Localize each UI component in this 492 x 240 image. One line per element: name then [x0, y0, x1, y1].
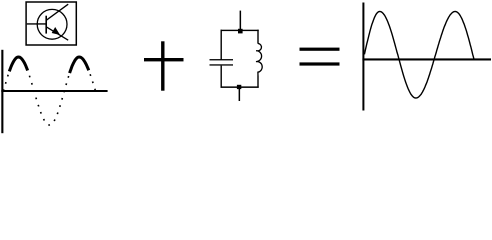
tank right wire below inductor — [257, 76, 258, 88]
tank top junction dot — [238, 29, 243, 34]
transistor emitter lead — [46, 27, 68, 40]
tank bottom junction dot — [237, 85, 241, 89]
tank right wire to inductor — [257, 30, 258, 44]
input waveform graph horizontal axis — [1, 90, 107, 92]
transistor base bar — [45, 16, 47, 34]
output graph vertical axis — [362, 3, 364, 111]
tank left wire to capacitor — [221, 30, 222, 60]
equals sign top bar — [300, 48, 340, 51]
equals sign bottom bar — [300, 62, 340, 65]
transistor emitter arrow — [52, 28, 59, 35]
transistor Q1 circle — [37, 9, 67, 39]
plus sign vertical bar — [161, 41, 164, 90]
input waveform solid peak 2 — [70, 57, 89, 73]
input waveform graph vertical axis — [1, 50, 3, 133]
input waveform solid peak 1 — [9, 57, 27, 71]
capacitor C1 bottom plate — [210, 64, 234, 65]
transistor box — [26, 2, 76, 45]
tank bottom wire — [221, 86, 259, 88]
capacitor bottom lead — [221, 66, 222, 88]
input waveform dotted sine — [3, 57, 95, 125]
capacitor C1 top plate — [210, 59, 234, 60]
inductor L1 coil — [256, 44, 262, 77]
tank top terminal stub — [240, 11, 242, 31]
tank bottom terminal stub — [239, 88, 241, 101]
plus sign horizontal bar — [144, 58, 184, 61]
transistor base lead wire — [27, 23, 46, 25]
tank top wire — [221, 30, 259, 31]
transistor collector lead — [46, 4, 68, 20]
output graph horizontal axis — [362, 58, 491, 60]
output sine wave — [364, 12, 474, 99]
